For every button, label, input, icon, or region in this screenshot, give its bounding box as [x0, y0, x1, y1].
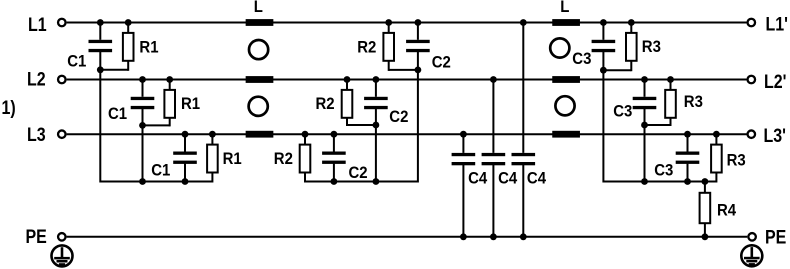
wire C2 star drop L1 (group2)	[417, 70, 419, 183]
wire C4 branch L1 lower to PE	[522, 165, 524, 237]
svg-text:C3: C3	[613, 103, 632, 121]
wire star-point bus group2	[305, 181, 418, 183]
wire cap branch C2 upper (group2 phase L3)	[333, 133, 335, 151]
inductor L choke1 winding on L3	[246, 131, 274, 138]
junction R2 top on line (group2 phase L2)	[344, 76, 351, 83]
capacitor C2 (group2 phase L1)	[406, 40, 430, 43]
svg-text:L3: L3	[27, 124, 46, 146]
svg-text:R1: R1	[139, 38, 158, 56]
junction bus group3 at R4	[702, 178, 709, 185]
svg-text:1): 1)	[2, 96, 16, 118]
terminal L3 left	[58, 130, 66, 138]
wire res branch R2 lower (group2 phase L2)	[346, 118, 348, 126]
terminal PE right	[748, 233, 756, 241]
junction R4 at PE	[702, 233, 709, 240]
wire bottom link C2/R2 (group2 phase L2)	[347, 124, 376, 126]
wire cap branch C3 upper (group3 phase L3)	[687, 133, 689, 151]
wire res branch R1 lower (group1 phase L1)	[127, 61, 129, 71]
inductor L choke1 winding on L2	[246, 76, 274, 83]
terminal L1' right	[748, 19, 756, 27]
wire cap branch C3 lower (group3 phase L1)	[602, 52, 604, 70]
inductor L choke1 winding on L1	[246, 19, 274, 26]
wire R4 upper	[704, 182, 706, 193]
junction R2 top on line (group2 phase L1)	[385, 19, 392, 26]
svg-text:PE: PE	[26, 226, 47, 248]
wire res branch R1 lower (group1 phase L2)	[169, 118, 171, 127]
wire cap branch C2 lower (group2 phase L1)	[417, 52, 419, 70]
wire res branch R3 upper (group3 phase L2)	[670, 79, 672, 90]
junction C2 bottom node (group2 L1)	[415, 67, 422, 74]
capacitor C1 (group1 phase L3)	[173, 152, 197, 155]
capacitor C2 (group2 phase L3)	[322, 152, 346, 155]
wire cap branch C1 lower (group1 phase L3)	[184, 164, 186, 182]
junction R1 top on line (group1 phase L3)	[209, 131, 216, 138]
svg-text:L: L	[254, 0, 263, 16]
svg-text:L1: L1	[28, 14, 47, 36]
terminal PE left	[58, 233, 66, 241]
junction C1 top on line (group1 phase L3)	[182, 131, 189, 138]
wire line PE	[67, 236, 748, 238]
wire res branch R3 lower (group3 phase L1)	[630, 61, 632, 71]
junction C4 L3 at PE	[460, 233, 467, 240]
junction R3 top on line (group3 phase L1)	[628, 19, 635, 26]
junction bus group3 at L2 drop	[641, 178, 648, 185]
junction C3 top on line (group3 phase L1)	[600, 19, 607, 26]
wire bottom link C2/R2 (group2 phase L1)	[389, 69, 418, 71]
wire cap branch C3 lower (group3 phase L2)	[644, 109, 646, 125]
choke2 core circle lower	[555, 96, 574, 115]
svg-text:R1: R1	[223, 150, 242, 168]
wire bottom link C3/R3 (group3 phase L3)	[688, 181, 717, 183]
capacitor C4 (L3)	[452, 153, 476, 156]
wire line L3	[67, 133, 747, 135]
junction C2 bottom node (group2 L2)	[373, 122, 380, 129]
wire cap branch C1 upper (group1 phase L3)	[184, 133, 186, 151]
capacitor C4 (L1)	[512, 153, 536, 156]
terminal L2 left	[58, 76, 66, 84]
wire cap branch C3 upper (group3 phase L2)	[644, 79, 646, 97]
inductor L choke2 winding on L2	[552, 76, 580, 83]
svg-text:C4: C4	[527, 170, 546, 188]
terminal L3' right	[748, 130, 756, 138]
wire C3 star drop L1 (group3)	[602, 70, 604, 182]
junction C3 top on line (group3 phase L2)	[641, 76, 648, 83]
wire res branch R2 upper (group2 phase L2)	[346, 79, 348, 90]
junction C4 L1 tap	[520, 19, 527, 26]
wire cap branch C2 upper (group2 phase L1)	[417, 22, 419, 40]
terminal L1 left	[58, 19, 66, 27]
svg-text:R3: R3	[642, 38, 661, 56]
wire C3 star drop L2 (group3)	[644, 125, 646, 182]
wire C4 branch from L1 upper	[522, 22, 524, 153]
svg-text:R3: R3	[727, 152, 746, 170]
resistor R2 (group2 phase L1)	[383, 33, 394, 61]
junction C3 bottom node (group3 L1)	[600, 67, 607, 74]
wire bottom link C3/R3 (group3 phase L1)	[603, 69, 631, 71]
wire C1 star drop L2 (group1)	[142, 125, 144, 181]
wire bottom link C1/R1 (group1 phase L3)	[185, 181, 212, 183]
wire C2 star drop L2 (group2)	[375, 125, 377, 182]
junction bus group3 at L3 cap	[684, 178, 691, 185]
wire bottom link C1/R1 (group1 phase L1)	[100, 69, 128, 71]
wire res branch R3 lower (group3 phase L3)	[715, 173, 717, 183]
svg-text:C2: C2	[389, 108, 408, 126]
wire bottom link C3/R3 (group3 phase L2)	[645, 124, 671, 126]
wire res branch R1 upper (group1 phase L2)	[169, 79, 171, 90]
svg-text:C4: C4	[468, 170, 487, 188]
junction C1 top on line (group1 phase L2)	[139, 76, 146, 83]
inductor L choke2 winding on L1	[552, 19, 580, 26]
junction bus group2 at L2 drop	[373, 178, 380, 185]
svg-text:R2: R2	[357, 38, 376, 56]
junction R3 top on line (group3 phase L2)	[667, 76, 674, 83]
wire cap branch C2 lower (group2 phase L2)	[375, 109, 377, 125]
svg-text:L3': L3'	[764, 125, 786, 147]
wire res branch R2 lower (group2 phase L3)	[304, 173, 306, 183]
wire res branch R2 lower (group2 phase L1)	[388, 61, 390, 71]
choke1 core circle lower	[249, 97, 268, 116]
junction C2 top on line (group2 phase L2)	[373, 76, 380, 83]
junction R1 top on line (group1 phase L1)	[125, 19, 132, 26]
svg-text:R1: R1	[181, 95, 200, 113]
junction C4 L2 at PE	[490, 233, 497, 240]
svg-text:C1: C1	[67, 53, 86, 71]
terminal L2' right	[748, 76, 756, 84]
capacitor C4 (L2)	[482, 153, 506, 156]
wire cap branch C1 upper (group1 phase L1)	[99, 22, 101, 40]
resistor R1 (group1 phase L1)	[123, 33, 134, 61]
wire res branch R1 upper (group1 phase L1)	[127, 22, 129, 33]
capacitor C3 (group3 phase L1)	[592, 40, 616, 43]
capacitor C3 (group3 phase L3)	[676, 152, 700, 155]
junction C3 bottom node (group3 L2)	[641, 122, 648, 129]
svg-text:C1: C1	[151, 162, 170, 180]
wire C4 branch from L2 upper	[492, 79, 494, 153]
svg-text:PE: PE	[765, 226, 786, 248]
svg-text:L1': L1'	[766, 13, 788, 35]
protective earth symbol left	[52, 245, 73, 266]
junction R1 top on line (group1 phase L2)	[166, 76, 173, 83]
protective earth symbol right	[741, 245, 762, 266]
svg-text:R2: R2	[316, 95, 335, 113]
wire cap branch C2 upper (group2 phase L2)	[375, 79, 377, 97]
wire bottom link C2/R2 (group2 phase L3)	[305, 181, 334, 183]
svg-text:R3: R3	[684, 93, 703, 111]
capacitor C2 (group2 phase L2)	[364, 97, 388, 100]
svg-text:L: L	[560, 0, 569, 16]
svg-text:L2': L2'	[764, 70, 786, 92]
junction C2 top on line (group2 phase L3)	[331, 131, 338, 138]
wire cap branch C3 lower (group3 phase L3)	[687, 164, 689, 182]
svg-text:C3: C3	[572, 50, 591, 68]
svg-text:C1: C1	[108, 105, 127, 123]
wire C1 star drop L1 (group1)	[99, 70, 101, 183]
wire cap branch C1 lower (group1 phase L2)	[142, 109, 144, 126]
wire C4 branch L2 lower to PE	[492, 165, 494, 237]
junction C3 top on line (group3 phase L3)	[684, 131, 691, 138]
wire R4 lower to PE	[704, 223, 706, 237]
resistor R2 (group2 phase L2)	[342, 90, 353, 118]
wire res branch R1 lower (group1 phase L3)	[211, 173, 213, 183]
svg-text:C2: C2	[349, 164, 368, 182]
capacitor C3 (group3 phase L2)	[633, 97, 657, 100]
junction C2 top on line (group2 phase L1)	[415, 19, 422, 26]
svg-text:L2: L2	[27, 68, 46, 90]
wire res branch R2 upper (group2 phase L1)	[388, 22, 390, 33]
inductor L choke2 winding on L3	[552, 131, 580, 138]
junction R2 top on line (group2 phase L3)	[302, 131, 309, 138]
wire res branch R2 upper (group2 phase L3)	[304, 133, 306, 144]
wire star-point bus group1	[100, 181, 212, 183]
resistor R1 (group1 phase L2)	[164, 90, 175, 118]
wire res branch R3 upper (group3 phase L3)	[715, 133, 717, 144]
junction C1 top on line (group1 phase L1)	[97, 19, 104, 26]
wire line L2	[67, 79, 747, 81]
svg-text:C2: C2	[432, 53, 451, 71]
resistor R2 (group2 phase L3)	[300, 145, 311, 173]
wire star-point bus group3	[603, 181, 716, 183]
wire res branch R3 upper (group3 phase L1)	[630, 22, 632, 33]
svg-text:R2: R2	[274, 150, 293, 168]
resistor R1 (group1 phase L3)	[207, 145, 218, 173]
junction bus group1 at L2 drop	[139, 178, 146, 185]
junction C1 bottom node (group1 L2)	[139, 122, 146, 129]
choke2 core circle upper	[550, 38, 569, 57]
resistor R3 (group3 phase L1)	[626, 33, 637, 61]
svg-text:C4: C4	[498, 170, 517, 188]
wire bottom link C1/R1 (group1 phase L2)	[143, 124, 170, 126]
capacitor C1 (group1 phase L2)	[131, 97, 155, 100]
choke1 core circle upper	[249, 40, 268, 59]
wire cap branch C2 lower (group2 phase L3)	[333, 164, 335, 182]
junction R3 top on line (group3 phase L3)	[713, 131, 720, 138]
wire cap branch C1 upper (group1 phase L2)	[142, 79, 144, 97]
wire res branch R1 upper (group1 phase L3)	[211, 133, 213, 144]
junction bus group2 at L3 cap	[331, 178, 338, 185]
wire C4 branch L3 lower to PE	[462, 165, 464, 237]
svg-text:R4: R4	[717, 201, 736, 219]
junction C4 L3 tap	[460, 131, 467, 138]
wire cap branch C3 upper (group3 phase L1)	[602, 22, 604, 40]
capacitor C1 (group1 phase L1)	[89, 40, 113, 43]
wire line L1	[67, 22, 747, 24]
junction bus group1 at L3 cap	[182, 178, 189, 185]
junction C4 L1 at PE	[520, 233, 527, 240]
wire cap branch C1 lower (group1 phase L1)	[99, 52, 101, 70]
resistor R3 (group3 phase L3)	[711, 145, 722, 173]
wire C4 branch from L3 upper	[462, 133, 464, 153]
resistor R4	[700, 193, 711, 223]
resistor R3 (group3 phase L2)	[665, 90, 676, 118]
wire res branch R3 lower (group3 phase L2)	[670, 118, 672, 126]
junction C4 L2 tap	[490, 76, 497, 83]
svg-text:C3: C3	[654, 162, 673, 180]
junction C1 bottom node (group1 L1)	[97, 66, 104, 73]
